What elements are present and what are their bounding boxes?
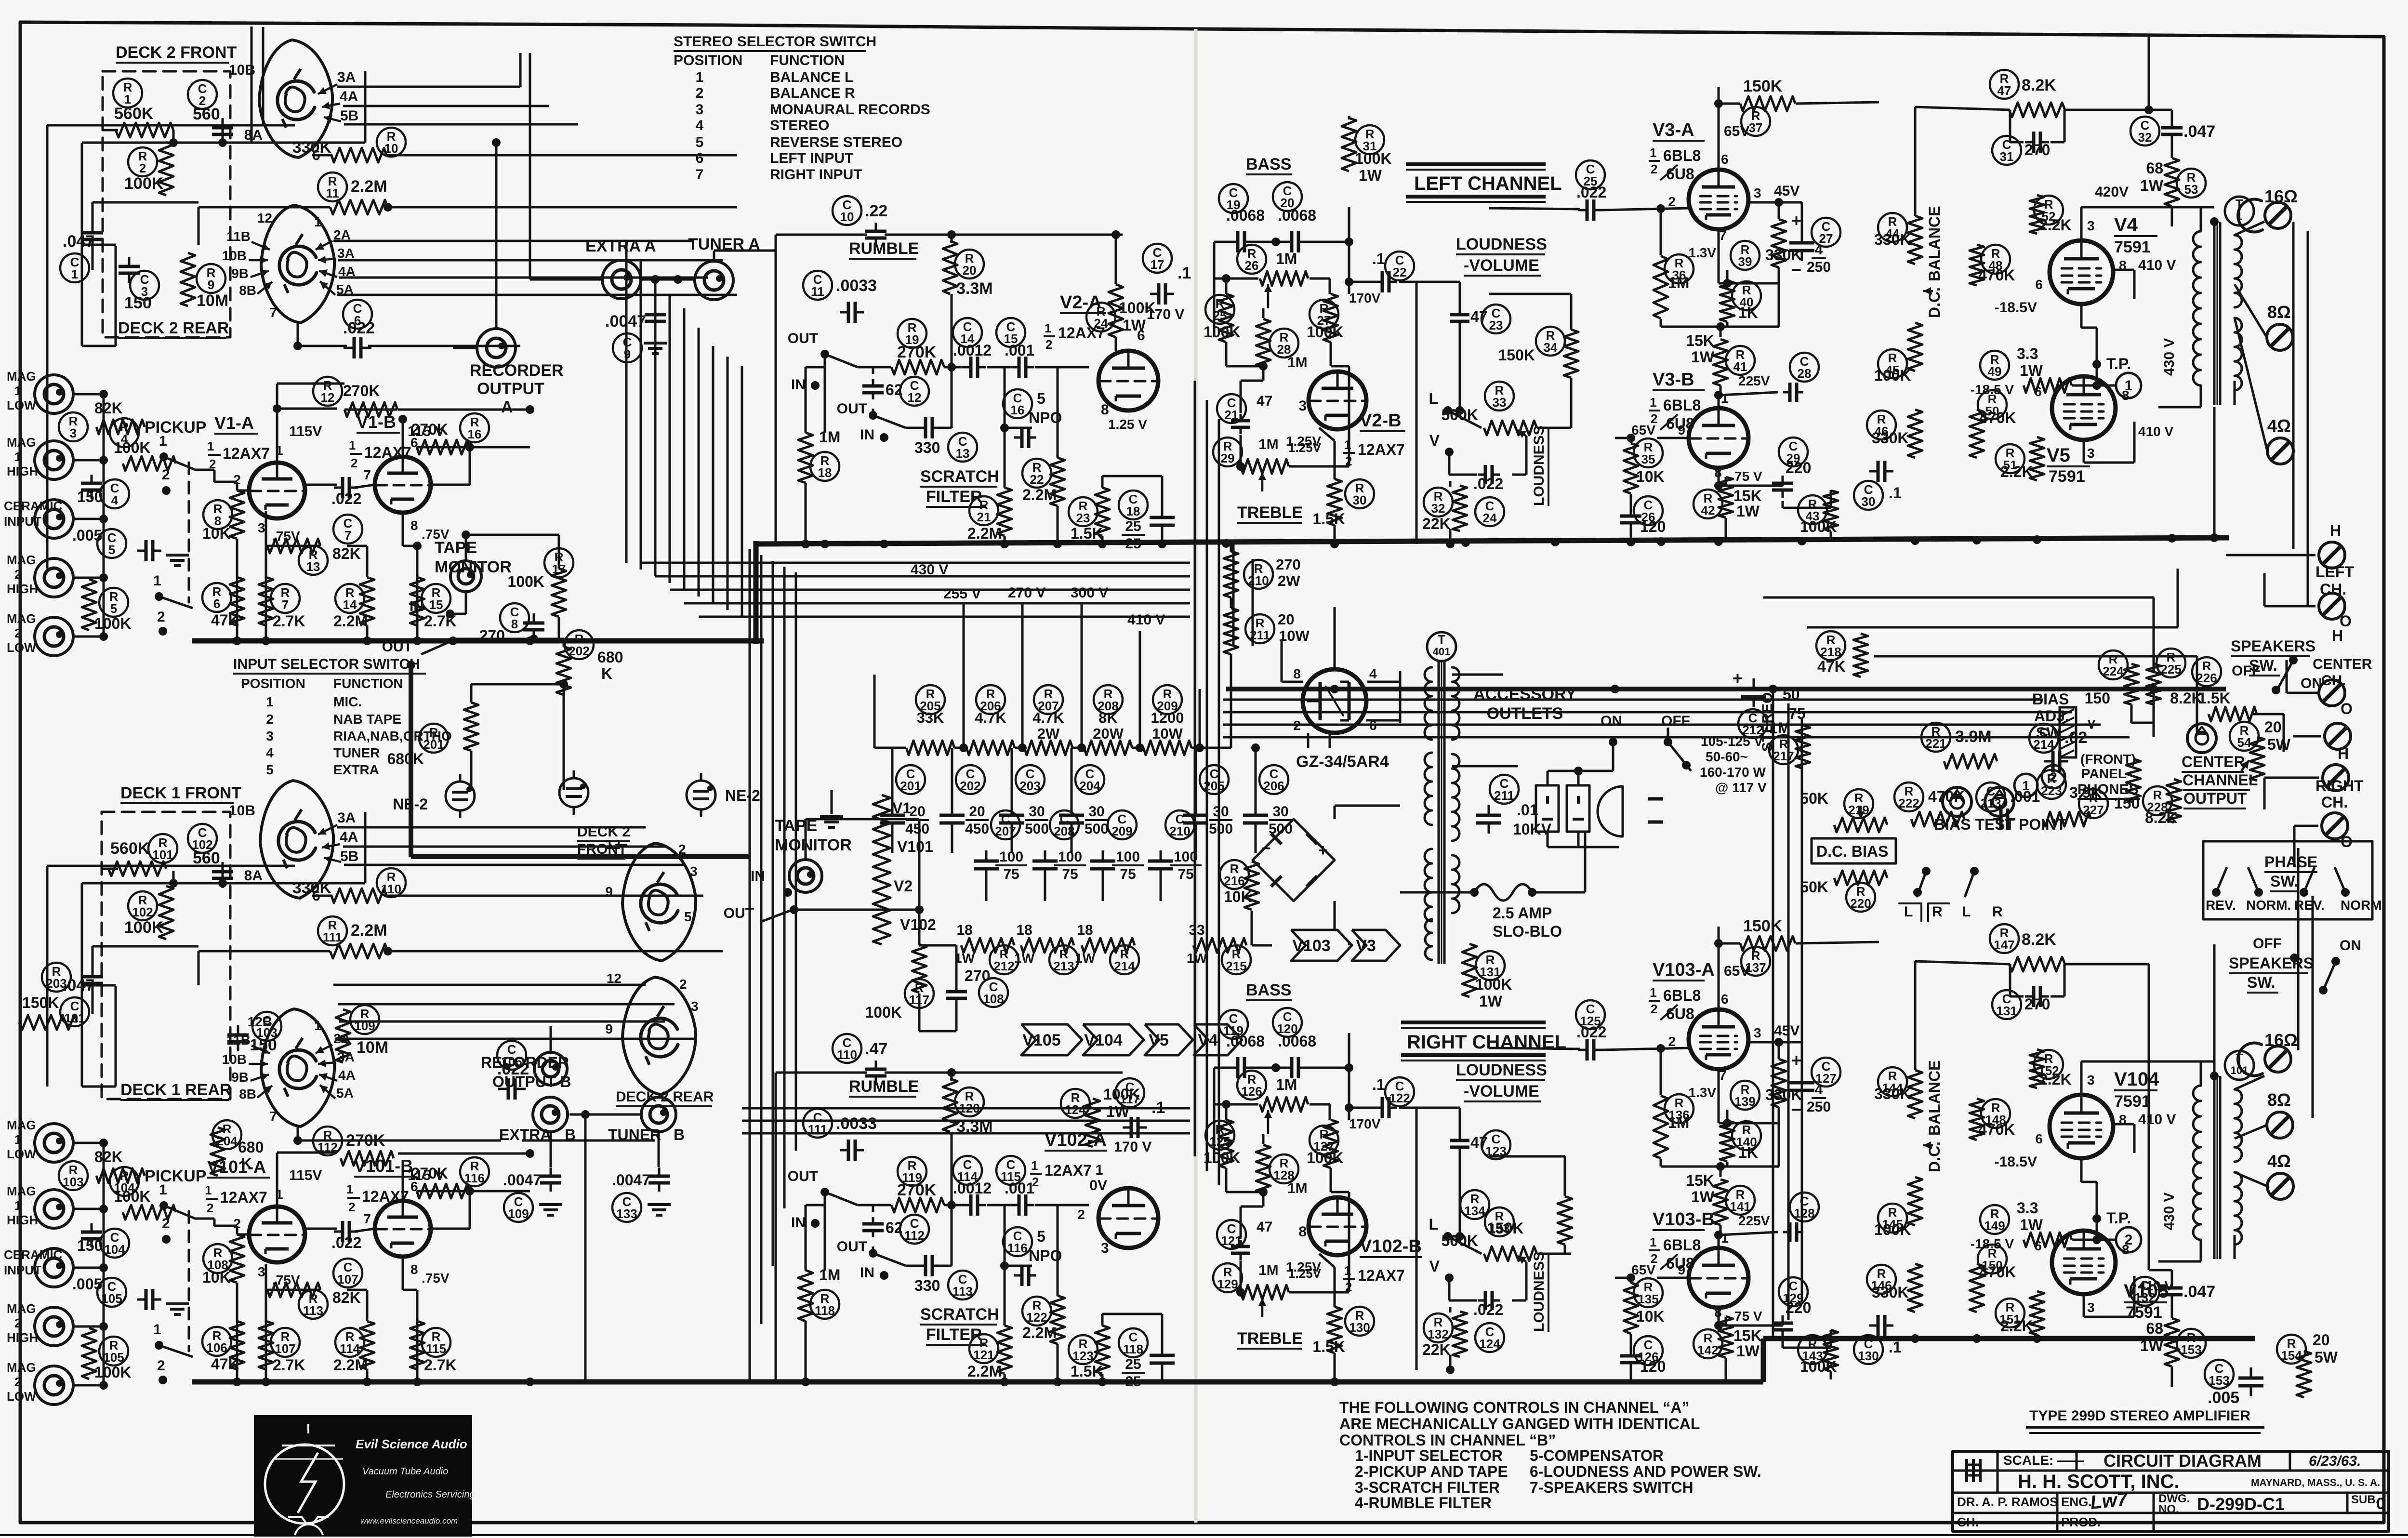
svg-text:225V: 225V [1738, 373, 1770, 388]
resistor R125 100K [1204, 1120, 1241, 1168]
svg-text:65V: 65V [1724, 123, 1749, 139]
rectifier tube GZ-34/5AR4 [1293, 666, 1389, 771]
svg-text:1: 1 [14, 384, 21, 398]
svg-text:PICKUP: PICKUP [145, 418, 206, 437]
triode V103-B tube [1631, 1231, 1762, 1324]
capacitor C118 25/25 [1119, 1328, 1175, 1390]
resistor R14 2.2M [333, 577, 374, 630]
svg-text:1M: 1M [1258, 1262, 1279, 1278]
label V105 7591 [2124, 1281, 2169, 1322]
svg-text:FUNCTION: FUNCTION [333, 676, 403, 691]
title block row 4 [1957, 1515, 2101, 1529]
resistor R218 47K [1816, 631, 1868, 677]
svg-text:103: 103 [63, 1175, 83, 1189]
resistor R22 2.2M [1022, 458, 1065, 506]
pickup selector contacts A [153, 433, 195, 636]
svg-text:1: 1 [1031, 1158, 1038, 1173]
svg-text:122: 122 [1389, 1091, 1410, 1105]
label DECK 2 FRONT [116, 43, 237, 63]
svg-text:12AX7: 12AX7 [1358, 1267, 1405, 1284]
power supply wiring [1252, 607, 1668, 945]
svg-text:3.3M: 3.3M [956, 279, 993, 298]
svg-text:.0047: .0047 [612, 1171, 650, 1189]
svg-text:15K: 15K [1686, 332, 1714, 349]
svg-text:2: 2 [1032, 1175, 1039, 1189]
svg-text:.0047: .0047 [503, 1171, 542, 1189]
label BASS [1246, 155, 1292, 174]
supply divider chain [874, 685, 1260, 755]
svg-text:LOW: LOW [7, 640, 36, 655]
svg-text:8B: 8B [239, 283, 256, 298]
svg-text:THE FOLLOWING CONTROLS IN C: THE FOLLOWING CONTROLS IN CHANNEL “A” [1339, 1399, 1689, 1416]
svg-text:54: 54 [2237, 735, 2251, 750]
svg-text:270K: 270K [343, 382, 380, 399]
svg-text:9: 9 [208, 278, 214, 292]
resistor R28 bass pot [1256, 319, 1308, 371]
capacitor C1 .047 [60, 222, 103, 282]
resistor R223 3.9K [2037, 770, 2102, 826]
svg-text:16: 16 [1011, 403, 1025, 417]
svg-text:1: 1 [207, 439, 214, 453]
svg-text:10B: 10B [222, 1052, 247, 1067]
svg-text:210: 210 [1248, 573, 1269, 588]
tape monitor B wiring [794, 819, 956, 1031]
switch pin labels deck 1 rear [222, 1014, 356, 1124]
svg-text:68: 68 [2146, 159, 2163, 177]
svg-text:25: 25 [1125, 536, 1141, 552]
svg-text:OFF: OFF [1661, 713, 1690, 729]
svg-text:-18.5V: -18.5V [1995, 300, 2037, 316]
svg-text:12: 12 [607, 971, 622, 986]
label V1-A 12AX7 [207, 413, 270, 471]
resistor R48 470K [1970, 245, 2015, 285]
label CENTER CH. [2313, 656, 2372, 689]
svg-text:100K: 100K [508, 573, 545, 590]
svg-text:1: 1 [1650, 395, 1656, 410]
svg-text:130: 130 [1858, 1349, 1879, 1363]
resistor R130 1.5K [1312, 1307, 1374, 1355]
capacitor C124 .022 [1473, 1301, 1504, 1352]
svg-text:2: 2 [696, 85, 704, 101]
resistor R113 82K [267, 1283, 361, 1319]
svg-text:RECORDER: RECORDER [470, 361, 564, 380]
svg-text:.022: .022 [1473, 475, 1503, 492]
channel B ground bus [192, 1378, 1763, 1386]
V1 stage wiring [195, 384, 534, 641]
svg-text:V5: V5 [2047, 445, 2070, 466]
svg-text:150: 150 [124, 294, 152, 312]
resistor R147 8.2K feedback [1990, 924, 2065, 971]
capacitor C12 62 [862, 377, 929, 406]
svg-text:82K: 82K [332, 1289, 361, 1306]
heater chevrons V103 V3 [1291, 930, 1400, 961]
svg-text:7: 7 [269, 305, 277, 320]
capacitor C107 .022 [331, 1221, 362, 1287]
feedback lines right [2293, 222, 2313, 1118]
svg-text:100K: 100K [865, 1004, 902, 1021]
svg-text:680: 680 [238, 1139, 264, 1156]
svg-text:1W: 1W [1479, 993, 1503, 1010]
svg-text:MAG: MAG [7, 1360, 36, 1375]
label V2-A [1044, 292, 1106, 352]
label LOUDNESS -VOLUME [1456, 235, 1547, 276]
svg-text:115V: 115V [289, 424, 322, 439]
lower vertical bundle [750, 549, 796, 1382]
svg-text:1: 1 [349, 438, 356, 452]
svg-text:8Ω: 8Ω [2267, 302, 2291, 322]
svg-text:1: 1 [1650, 1235, 1656, 1249]
svg-text:6BL8: 6BL8 [1663, 1236, 1701, 1254]
svg-text:6BL8: 6BL8 [1663, 987, 1701, 1004]
svg-text:30: 30 [1088, 804, 1104, 820]
svg-text:18: 18 [1016, 922, 1032, 938]
svg-text:TAPE: TAPE [435, 539, 477, 557]
HH Scott logo mark [1967, 1459, 1980, 1482]
resistor R121 2.2M [967, 1326, 1012, 1380]
label CENTER CHANNEL OUTPUT [2182, 753, 2258, 809]
output transformer T1 [2193, 197, 2254, 405]
svg-text:330K: 330K [1872, 1284, 1909, 1301]
capacitor C23 47 [1450, 305, 1510, 333]
svg-text:@ 117 V: @ 117 V [1715, 780, 1767, 795]
power tube V5 [1971, 376, 2174, 461]
svg-text:330K: 330K [1874, 1085, 1911, 1102]
svg-text:1: 1 [346, 1182, 353, 1196]
svg-text:.0068: .0068 [1278, 1033, 1316, 1050]
svg-text:T: T [1438, 632, 1445, 647]
svg-text:1M: 1M [1287, 355, 1308, 371]
svg-text:6: 6 [696, 150, 704, 166]
speaker terminal 16 ohm [2238, 1030, 2298, 1076]
svg-text:NO.: NO. [2158, 1503, 2179, 1516]
svg-text:10M: 10M [357, 1038, 388, 1057]
svg-text:RUMBLE: RUMBLE [849, 1077, 919, 1096]
svg-text:82K: 82K [332, 545, 361, 562]
svg-text:.47: .47 [865, 1040, 887, 1058]
svg-text:+: + [1791, 1050, 1801, 1070]
filter capacitors C201-C206 [880, 748, 1293, 853]
svg-text:2: 2 [14, 1375, 21, 1389]
Evil Science Audio logo box [254, 1415, 472, 1537]
capacitor C13 330 [914, 417, 977, 462]
svg-text:100: 100 [1116, 849, 1140, 865]
svg-text:2: 2 [157, 609, 165, 625]
svg-text:122: 122 [1026, 1310, 1047, 1325]
svg-text:RIGHT INPUT: RIGHT INPUT [770, 167, 862, 183]
resistor R104 100K [110, 1167, 176, 1220]
resistor R137 150K [1740, 917, 1795, 976]
label V4 7591 [2114, 214, 2157, 256]
capacitor C128 coupling [1790, 1193, 1819, 1221]
rotary switch deck 2 front [259, 40, 332, 158]
svg-text:V1: V1 [892, 799, 911, 817]
svg-text:34: 34 [1544, 340, 1558, 355]
svg-text:1M: 1M [819, 1266, 840, 1284]
svg-text:3: 3 [2087, 218, 2095, 233]
capacitor C103 150 [227, 1012, 281, 1054]
resistor R2 100K [124, 142, 173, 195]
svg-text:500: 500 [1025, 821, 1049, 837]
tape trunk heavy wire [407, 661, 750, 857]
svg-text:.022: .022 [343, 319, 375, 337]
svg-text:V103-B: V103-B [1653, 1209, 1715, 1230]
svg-text:107: 107 [337, 1272, 358, 1286]
svg-text:11: 11 [326, 186, 339, 200]
svg-text:1: 1 [71, 267, 78, 281]
svg-text:1: 1 [266, 694, 274, 709]
svg-text:1: 1 [205, 1183, 212, 1197]
heater series resistors R212-R215 [954, 922, 1251, 974]
svg-text:1.3V: 1.3V [1688, 245, 1716, 260]
resistor R123 1.5K [1069, 1326, 1110, 1380]
svg-text:.0068: .0068 [1226, 1033, 1265, 1050]
svg-text:560: 560 [193, 105, 220, 123]
svg-text:6-LOUDNESS AND POWER SW.: 6-LOUDNESS AND POWER SW. [1530, 1463, 1761, 1480]
resistor R8 10K [202, 491, 244, 542]
resistor R20 3.3M [943, 241, 993, 298]
capacitor C8 270 [479, 603, 544, 644]
svg-text:45V: 45V [1774, 183, 1799, 199]
resistor R222 470K [1894, 782, 1965, 826]
svg-text:6BL8: 6BL8 [1663, 397, 1701, 414]
resistor R227 150 [2079, 759, 2141, 818]
front panel hatched jack [2060, 707, 2097, 757]
svg-text:49: 49 [1988, 364, 2002, 379]
svg-text:1: 1 [2125, 378, 2133, 394]
label D.C. BALANCE [1923, 1061, 1943, 1172]
resistor R32 22K [1422, 486, 1467, 532]
resistor R228 8.2K [2143, 779, 2181, 826]
vertical selector bus bundle [626, 241, 742, 617]
svg-text:3A: 3A [337, 69, 356, 85]
capacitor C14 .0012 [953, 318, 992, 378]
heater dropping resistors [873, 795, 936, 944]
svg-text:25: 25 [1125, 1374, 1141, 1390]
deck 1 wiring [47, 812, 723, 1145]
svg-text:1-INPUT SELECTOR: 1-INPUT SELECTOR [1355, 1447, 1503, 1464]
capacitor C30 .1 [1854, 461, 1902, 510]
resistor R135 10K [1624, 1278, 1665, 1334]
capacitor C18 25/25 [1119, 491, 1175, 552]
svg-text:V101-B: V101-B [354, 1156, 413, 1176]
resistor R224 150 [2085, 650, 2139, 707]
svg-text:5W: 5W [2315, 1349, 2338, 1366]
svg-text:9B: 9B [231, 266, 249, 281]
svg-text:BASS: BASS [1246, 981, 1291, 999]
svg-text:120: 120 [1640, 1358, 1666, 1375]
resistor R117 100K [865, 944, 934, 1021]
svg-text:ENG.: ENG. [2061, 1495, 2092, 1509]
capacitor C16 5 NPO [1003, 389, 1062, 448]
svg-text:CHANNEL: CHANNEL [2183, 771, 2258, 789]
svg-text:.1: .1 [1372, 250, 1385, 267]
svg-text:1W: 1W [1691, 348, 1715, 366]
svg-text:8.2K: 8.2K [2022, 76, 2056, 94]
svg-text:3-SCRATCH FILTER: 3-SCRATCH FILTER [1355, 1479, 1500, 1496]
svg-text:124: 124 [1479, 1337, 1500, 1351]
svg-text:L: L [1429, 390, 1438, 407]
resistor R19 270K [891, 319, 944, 374]
svg-text:REVERSE STEREO: REVERSE STEREO [770, 134, 902, 150]
svg-text:3A: 3A [337, 810, 356, 826]
resistor R139 330K [1688, 1059, 1802, 1110]
svg-text:1M: 1M [1258, 437, 1279, 452]
svg-text:150K: 150K [1487, 1220, 1524, 1237]
svg-text:V105: V105 [1022, 1031, 1060, 1049]
svg-text:118: 118 [1123, 1342, 1143, 1356]
svg-text:6/23/63.: 6/23/63. [2309, 1453, 2361, 1469]
svg-text:1200: 1200 [1151, 709, 1184, 726]
svg-text:1K: 1K [1738, 304, 1758, 321]
svg-text:118: 118 [815, 1303, 835, 1318]
svg-text:.0012: .0012 [953, 1180, 992, 1197]
svg-text:EXTRA A: EXTRA A [585, 237, 656, 255]
svg-text:R: R [1932, 904, 1943, 920]
svg-text:4.7K: 4.7K [1032, 709, 1064, 726]
svg-text:V3: V3 [1356, 937, 1376, 955]
svg-text:HIGH: HIGH [7, 1213, 38, 1227]
triode V2-A [1098, 328, 1158, 432]
svg-text:105: 105 [101, 1291, 122, 1306]
svg-text:65V: 65V [1631, 1262, 1655, 1277]
resistor R201 680K [387, 703, 479, 768]
speakers switch B [2229, 936, 2361, 994]
svg-text:8B: 8B [239, 1087, 256, 1101]
svg-text:MAG: MAG [7, 369, 36, 384]
svg-text:20: 20 [1278, 611, 1294, 628]
jack TUNER B [608, 1097, 685, 1143]
svg-text:4-RUMBLE FILTER: 4-RUMBLE FILTER [1355, 1494, 1492, 1511]
capacitor C212 [1733, 668, 1767, 738]
svg-text:8: 8 [511, 617, 518, 631]
svg-text:SUB.: SUB. [2351, 1493, 2379, 1506]
svg-text:210: 210 [1169, 824, 1190, 838]
svg-text:H: H [2338, 745, 2349, 762]
svg-text:HIGH: HIGH [7, 582, 38, 596]
capacitor C108 270 [946, 967, 1008, 1008]
svg-text:32: 32 [2138, 130, 2152, 145]
svg-text:450: 450 [965, 821, 989, 837]
svg-text:150: 150 [250, 1036, 277, 1054]
label BIAS ADJ SW [2032, 690, 2069, 742]
svg-text:H: H [2330, 522, 2341, 539]
speakers switch A [2231, 637, 2322, 694]
svg-text:410 V: 410 V [2138, 257, 2176, 273]
svg-text:5: 5 [108, 543, 115, 557]
svg-text:220: 220 [1850, 896, 1871, 911]
resistor R225 8.2K [2146, 649, 2203, 707]
svg-text:5-COMPENSATOR: 5-COMPENSATOR [1530, 1447, 1664, 1464]
label 430V vertical [2161, 1193, 2177, 1230]
svg-text:7: 7 [269, 1109, 277, 1124]
line bypass capacitor C211 .01 10KV [1476, 775, 1552, 838]
resistor R118 1M [798, 1266, 840, 1321]
label V103-B [1649, 1209, 1715, 1272]
fold crease [1194, 29, 1198, 1523]
resistor R128 bass pot [1256, 1145, 1308, 1196]
resistor R13 82K [267, 539, 361, 575]
filter wiring [776, 1068, 1162, 1386]
jack RECORDER OUTPUT A [470, 329, 564, 416]
svg-text:SPEAKERS: SPEAKERS [2231, 637, 2315, 655]
capacitor C24 .022 [1473, 475, 1504, 526]
jack EXTRA B [499, 1097, 576, 1143]
svg-text:10W: 10W [1152, 725, 1183, 742]
capacitor C3 150 [119, 257, 159, 312]
svg-text:32: 32 [1431, 501, 1445, 516]
svg-text:12AX7: 12AX7 [1045, 1162, 1092, 1179]
svg-text:207: 207 [995, 824, 1016, 838]
capacitor C102 560 [188, 824, 233, 888]
svg-text:10W: 10W [1279, 627, 1310, 644]
svg-text:201: 201 [423, 737, 444, 752]
label TREBLE [1237, 504, 1303, 523]
svg-text:11B: 11B [226, 229, 251, 244]
svg-text:153: 153 [2181, 1342, 2201, 1357]
svg-text:2: 2 [2125, 1232, 2133, 1248]
wires extra/tuner B [551, 1026, 659, 1382]
svg-text:2: 2 [1077, 1207, 1085, 1222]
svg-text:330K: 330K [1874, 231, 1911, 248]
svg-text:22K: 22K [1422, 515, 1451, 532]
svg-text:1W: 1W [1123, 317, 1146, 334]
svg-text:7591: 7591 [2114, 238, 2151, 256]
svg-text:3: 3 [1754, 186, 1761, 200]
svg-text:5B: 5B [340, 849, 358, 864]
capacitor C111 .0033 [803, 1109, 877, 1161]
wires extra/tuner A [530, 53, 776, 300]
title block row 3 [1957, 1488, 2385, 1516]
svg-text:V: V [1429, 1258, 1440, 1275]
resistor R124 100K 1W [1061, 1086, 1140, 1147]
output stage wiring [1915, 37, 2267, 463]
svg-text:270: 270 [1276, 556, 1301, 573]
svg-text:100K: 100K [1874, 1221, 1911, 1238]
svg-text:.0068: .0068 [1278, 207, 1316, 224]
svg-text:LEFT CHANNEL: LEFT CHANNEL [1414, 173, 1562, 194]
svg-text:.1: .1 [1178, 264, 1191, 282]
svg-text:1W: 1W [1736, 1342, 1760, 1360]
svg-text:V102: V102 [900, 916, 936, 933]
svg-text:OUTPUT: OUTPUT [477, 380, 544, 398]
accessory outlet 2 [1567, 785, 1589, 832]
filter wiring [776, 230, 1162, 548]
svg-text:18: 18 [1077, 922, 1093, 938]
channel B horizontal bundle [742, 1108, 1190, 1133]
potentiometer R220 50K [1800, 871, 1887, 912]
svg-text:CERAMIC: CERAMIC [4, 1247, 63, 1262]
svg-text:47: 47 [1257, 1219, 1272, 1235]
svg-text:560K: 560K [114, 105, 154, 123]
svg-text:PHASE: PHASE [2264, 853, 2317, 871]
resistor R23 1.5K [1069, 488, 1110, 542]
capacitor C101 .047 [60, 966, 103, 1026]
resistor R109 10M [336, 1005, 388, 1062]
capacitor C153 .005 [2205, 1360, 2263, 1407]
svg-text:108: 108 [983, 992, 1004, 1006]
svg-text:150K: 150K [1743, 917, 1783, 935]
tape monitor B [724, 817, 852, 921]
svg-text:5: 5 [1037, 1228, 1045, 1245]
svg-text:1: 1 [14, 1198, 21, 1213]
svg-text:115V: 115V [289, 1167, 322, 1183]
svg-text:75: 75 [1003, 866, 1019, 882]
svg-text:2: 2 [1651, 162, 1657, 176]
svg-text:4: 4 [1815, 1082, 1823, 1098]
rotary switch deck 1 front [260, 781, 333, 898]
output stage wiring [1915, 961, 2267, 1387]
svg-text:−: − [1791, 260, 1801, 279]
